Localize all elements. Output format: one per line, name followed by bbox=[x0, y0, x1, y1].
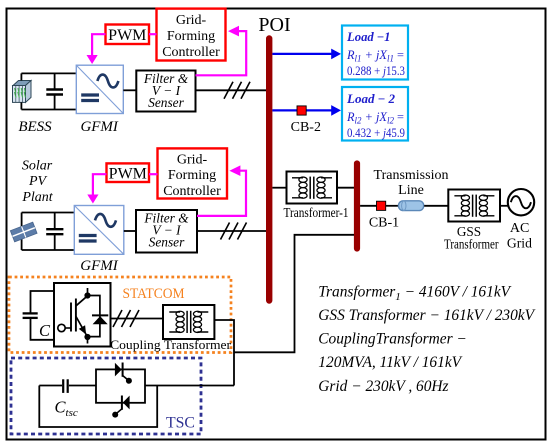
TSC dashed enclosure bbox=[11, 358, 201, 434]
capacitor C-tsc bbox=[39, 379, 96, 393]
wire TSC left loop bbox=[39, 386, 157, 428]
wire filter2 to POI bus bbox=[197, 230, 266, 232]
block PWM 2 bbox=[107, 163, 150, 182]
wire solar dc top bbox=[22, 212, 75, 214]
wire Transformer-1 to bus 2 bbox=[337, 187, 354, 189]
svg-text:Controller: Controller bbox=[162, 45, 220, 60]
magenta wire PWM1 to GFMI1 with arrow bbox=[92, 34, 105, 55]
svg-text:PWM: PWM bbox=[109, 165, 147, 182]
transformer GSS bbox=[448, 190, 500, 222]
wire BESS dc bottom bbox=[21, 109, 76, 111]
wire solar dc bottom bbox=[22, 249, 75, 251]
svg-text:Coupling Transformer: Coupling Transformer bbox=[110, 338, 232, 352]
block Filter & V-I Senser 2 bbox=[136, 210, 197, 253]
svg-text:Load − 2: Load − 2 bbox=[346, 92, 395, 106]
svg-text:Grid-: Grid- bbox=[177, 153, 208, 168]
svg-text:0.432 + j45.9: 0.432 + j45.9 bbox=[347, 126, 405, 140]
svg-text:Transformer-1: Transformer-1 bbox=[284, 205, 349, 220]
wire coupling transformer to riser bbox=[214, 320, 234, 386]
svg-text:Grid-: Grid- bbox=[176, 13, 207, 28]
svg-text:120MVA, 11kV / 161kV: 120MVA, 11kV / 161kV bbox=[318, 354, 462, 371]
magenta wire PWM1 to controller1 bbox=[149, 33, 157, 35]
breaker CB-1 bbox=[377, 201, 386, 210]
STATCOM dashed enclosure bbox=[9, 277, 231, 353]
transistor Q1 IGBT bbox=[58, 288, 91, 344]
svg-text:Senser: Senser bbox=[149, 235, 185, 250]
magenta feedback wire filter1 to controller1 with arrow bbox=[196, 31, 247, 75]
svg-text:Controller: Controller bbox=[163, 184, 221, 199]
wire GFMI2 to filter2 bbox=[124, 230, 136, 232]
wire arrow to Load-2 bbox=[272, 109, 333, 111]
svg-text:Transformer: Transformer bbox=[444, 236, 499, 251]
block Grid-Forming Controller 1 bbox=[157, 9, 226, 61]
wire bus2 to CB-1 bbox=[360, 205, 376, 207]
battery icon BESS bbox=[13, 81, 32, 103]
svg-text:Plant: Plant bbox=[21, 190, 53, 205]
transformer T1 bbox=[287, 172, 338, 204]
wire BESS dc top bbox=[21, 72, 76, 74]
svg-text:Grid: Grid bbox=[507, 236, 532, 251]
wire POI bus to Transformer-1 bbox=[272, 187, 286, 189]
svg-text:PWM: PWM bbox=[108, 27, 146, 44]
capacitor C-bess bbox=[46, 73, 63, 109]
transmission line cylinder bbox=[399, 201, 424, 211]
transformer coupling bbox=[163, 305, 214, 339]
bus POI bbox=[266, 39, 272, 301]
source AC Grid bbox=[508, 189, 534, 215]
three-phase slashes STATCOM bbox=[113, 310, 139, 327]
svg-text:POI: POI bbox=[258, 14, 290, 36]
block Grid-Forming Controller 2 bbox=[158, 148, 228, 198]
svg-text:Solar: Solar bbox=[22, 159, 53, 174]
bus 2 bbox=[354, 164, 360, 249]
svg-text:AC: AC bbox=[510, 221, 529, 236]
svg-text:Load −1: Load −1 bbox=[346, 30, 391, 44]
wire transmission line to GSS transformer bbox=[424, 205, 448, 207]
thyristor SCR2 (bottom, pointing left) bbox=[112, 396, 129, 418]
svg-text:Line: Line bbox=[398, 183, 424, 198]
solar panel icon bbox=[10, 222, 37, 242]
svg-text:GSS Transformer − 161kV / 230k: GSS Transformer − 161kV / 230kV bbox=[318, 307, 535, 324]
wire CB-1 to transmission line bbox=[386, 205, 398, 207]
svg-text:Senser: Senser bbox=[148, 95, 184, 110]
block Filter & V-I Senser 1 bbox=[136, 71, 195, 112]
magenta wire PWM2 to GFMI2 with arrow bbox=[93, 174, 107, 195]
svg-text:GFMI: GFMI bbox=[80, 258, 118, 274]
svg-text:Grid − 230kV , 60Hz: Grid − 230kV , 60Hz bbox=[318, 378, 448, 395]
thyristor SCR1 (top, pointing right) bbox=[115, 363, 132, 384]
wire riser branch to bus 2 bbox=[234, 235, 354, 352]
wire VSC to coupling transformer bbox=[111, 318, 164, 320]
wire filter1 to POI bus bbox=[196, 89, 267, 91]
svg-text:CB-1: CB-1 bbox=[369, 216, 399, 231]
svg-text:Forming: Forming bbox=[168, 168, 216, 183]
block Load-1 bbox=[342, 26, 408, 80]
magenta feedback wire filter2 to controller2 with arrow bbox=[197, 171, 246, 216]
capacitor C-solar bbox=[46, 213, 63, 251]
converter VSC box (STATCOM IGBT) bbox=[54, 283, 111, 347]
magenta wire PWM2 to controller2 bbox=[149, 173, 158, 175]
svg-text:CB-2: CB-2 bbox=[291, 120, 321, 135]
svg-text:BESS: BESS bbox=[18, 119, 52, 135]
svg-text:Transmission: Transmission bbox=[374, 168, 449, 183]
thyristor loop frame bbox=[96, 369, 145, 402]
diode D1 (antiparallel) bbox=[88, 296, 109, 337]
breaker CB-2 bbox=[297, 106, 306, 115]
wire solar dc left vertical bbox=[21, 213, 23, 251]
three-phase slashes 2 bbox=[221, 223, 247, 240]
svg-text:0.288 + j15.3: 0.288 + j15.3 bbox=[347, 64, 405, 78]
three-phase slashes 1 bbox=[224, 82, 250, 99]
wire GSS transformer to AC grid bbox=[500, 205, 508, 207]
block PWM 1 bbox=[106, 25, 150, 45]
svg-text:C: C bbox=[39, 321, 51, 340]
svg-text:CouplingTransformer −: CouplingTransformer − bbox=[318, 331, 467, 348]
svg-text:STATCOM: STATCOM bbox=[123, 286, 185, 302]
block Load-2 bbox=[342, 87, 408, 141]
note transformer ratings text bbox=[318, 284, 535, 395]
converter GFMI 2 (solar) bbox=[74, 206, 124, 255]
svg-text:GFMI: GFMI bbox=[80, 119, 118, 135]
svg-text:Transformer1 − 4160V / 161kV: Transformer1 − 4160V / 161kV bbox=[318, 284, 511, 304]
svg-text:PV: PV bbox=[28, 174, 48, 189]
wire arrow to Load-1 bbox=[272, 53, 333, 55]
svg-text:Forming: Forming bbox=[167, 29, 215, 44]
capacitor C (STATCOM dc link) bbox=[23, 291, 54, 340]
svg-text:TSC: TSC bbox=[166, 415, 195, 432]
converter GFMI 1 (BESS) bbox=[76, 65, 123, 113]
wire GFMI1 to filter1 bbox=[123, 89, 136, 91]
wire TSC output to riser bbox=[145, 385, 234, 387]
wire BESS dc left vertical bbox=[20, 73, 22, 109]
